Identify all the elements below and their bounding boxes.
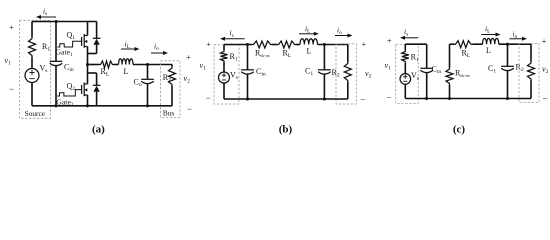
- current arrow is (c): [404, 37, 418, 39]
- svg-text:+: +: [186, 52, 191, 62]
- port labels + v2 - (b): [360, 39, 371, 104]
- wire RL to L (a): [114, 64, 119, 66]
- svg-text:L: L: [124, 67, 129, 76]
- svg-text:−: −: [360, 94, 365, 104]
- node bottom C1 (b): [323, 97, 326, 100]
- svg-text:+: +: [9, 22, 14, 32]
- current arrow iL (b): [299, 33, 315, 35]
- svg-text:−: −: [206, 93, 211, 103]
- wire L to output (a): [133, 64, 172, 66]
- capacitor Cin (c): [420, 44, 433, 98]
- port labels + v1 - (c): [385, 35, 392, 102]
- capacitor C1 (b): [318, 45, 331, 100]
- node bottom Cin (b): [246, 97, 249, 100]
- top wire input (c): [405, 43, 426, 45]
- wire RL to L (b): [296, 44, 300, 46]
- svg-text:+: +: [362, 39, 367, 49]
- node bottom C1 (c): [506, 97, 509, 100]
- resistor Rdson shunt (c): [446, 44, 453, 98]
- dashed box Source (a): [19, 20, 50, 118]
- svg-text:−: −: [9, 84, 14, 94]
- svg-text:(c): (c): [453, 123, 466, 135]
- resistor R1 (b): [221, 45, 228, 73]
- wire midpoint to RL (a): [88, 64, 100, 66]
- port labels + v1 - (b): [200, 39, 212, 103]
- port labels + v2 - (a): [184, 52, 193, 114]
- inductor L (c): [483, 38, 499, 44]
- svg-text:+: +: [542, 36, 547, 46]
- node C1 top (c): [506, 43, 509, 46]
- capacitor C1 (c): [501, 44, 514, 98]
- resistor RL (c): [454, 41, 473, 48]
- svg-text:−: −: [386, 92, 391, 102]
- node switch midpoint (a): [86, 63, 89, 66]
- node C1 top (b): [323, 43, 326, 46]
- capacitor Co (a): [141, 65, 154, 106]
- resistor R2 (c): [528, 44, 535, 98]
- node Cin top (b): [246, 43, 249, 46]
- svg-text:Source: Source: [25, 109, 45, 118]
- svg-text:Bus: Bus: [163, 108, 175, 117]
- current arrow is (a): [36, 15, 56, 19]
- gate driver Gate1 (a): [58, 41, 82, 47]
- current arrow iL (c): [481, 34, 496, 36]
- node bottom bridge (a): [86, 104, 89, 107]
- wire RL to L (c): [473, 43, 483, 45]
- dashed box bus (b): [336, 44, 357, 104]
- node bottom Co (a): [146, 104, 149, 107]
- node bottom Cin (a): [54, 104, 57, 107]
- resistor R2 (a): [169, 65, 176, 106]
- svg-text:(a): (a): [92, 123, 105, 135]
- gate driver Gate2 (a): [57, 90, 81, 96]
- svg-text:+: +: [206, 39, 211, 49]
- bottom wire (a): [32, 105, 172, 107]
- wire L to output (b): [318, 44, 348, 46]
- node bottom Cin (c): [425, 97, 428, 100]
- dashed box source (b): [214, 45, 239, 104]
- current arrow io (c): [510, 38, 524, 40]
- node input junction (a): [54, 20, 57, 23]
- top wire left (b): [224, 44, 252, 46]
- bottom wire (b): [224, 98, 348, 100]
- transistor Q2 (a): [82, 65, 88, 106]
- resistor RL (b): [277, 41, 296, 48]
- voltage source Vs (c): [400, 74, 411, 99]
- resistor R1 (c): [402, 44, 409, 73]
- wire Rdson to RL (b): [272, 44, 277, 46]
- capacitor Cin (b): [241, 45, 254, 100]
- node output junction (a): [146, 63, 149, 66]
- dashed box bus (c): [519, 44, 539, 103]
- node bottom Rdson (c): [448, 97, 451, 100]
- transistor Q1 (a): [82, 22, 88, 65]
- resistor R1 (a): [29, 22, 36, 69]
- current arrow iL (a): [121, 48, 136, 50]
- svg-text:+: +: [387, 35, 392, 45]
- current arrow io (b): [335, 35, 349, 37]
- resistor Rdson (b): [252, 41, 272, 48]
- svg-text:−: −: [542, 94, 547, 104]
- dashed box source (c): [396, 44, 419, 103]
- inductor L (a): [119, 59, 134, 65]
- port labels + v2 - (c): [542, 36, 549, 104]
- svg-text:−: −: [187, 104, 192, 114]
- diode D1 body (a): [88, 22, 101, 54]
- voltage source Vs (b): [219, 72, 230, 99]
- current arrow is (b): [224, 38, 245, 40]
- current arrow io (a): [151, 52, 164, 54]
- inductor L (b): [300, 39, 318, 45]
- resistor RL (a): [99, 61, 114, 68]
- dashed box Bus (a): [161, 61, 181, 118]
- svg-text:(b): (b): [279, 123, 293, 135]
- svg-text:L: L: [486, 46, 491, 55]
- top wire output segment (c): [450, 43, 455, 45]
- voltage source Vs (a): [25, 69, 39, 106]
- diode D2 body (a): [88, 73, 101, 106]
- capacitor Cin (a): [50, 22, 63, 106]
- wire L to R2 (c): [499, 43, 531, 45]
- top wire (a): [32, 21, 97, 23]
- resistor R2 (b): [344, 45, 351, 100]
- svg-text:L: L: [307, 46, 312, 55]
- bottom wire (c): [405, 98, 531, 100]
- port labels + v1 - (a): [5, 22, 15, 94]
